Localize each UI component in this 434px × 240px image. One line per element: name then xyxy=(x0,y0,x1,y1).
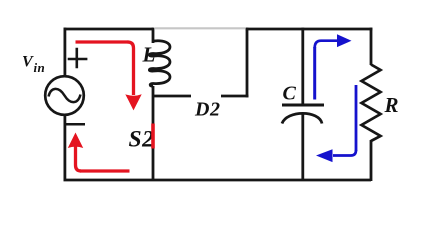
svg-text:D2: D2 xyxy=(194,99,221,121)
polarity plus sign xyxy=(68,48,88,68)
wire: left rail lower (Vin bottom lead) xyxy=(64,114,67,181)
wire: resistor top lead xyxy=(370,28,373,65)
blue current arrow: vertical up from capacitor xyxy=(313,47,316,100)
red current arrow: bottom horizontal segment xyxy=(80,169,130,172)
red current arrow: left vertical shaft with elbow xyxy=(76,147,82,172)
svg-text:C: C xyxy=(283,83,297,105)
svg-text:S2: S2 xyxy=(129,126,155,152)
wire: inductor top lead xyxy=(152,28,155,43)
red current arrowhead (up) xyxy=(68,133,83,149)
red current arrowhead (down) xyxy=(125,94,141,110)
wire: diode branch vertical riser xyxy=(246,28,249,98)
blue current arrowhead (right) xyxy=(337,34,352,47)
wire: left rail upper (Vin top lead) xyxy=(64,28,67,77)
capacitor C top plate xyxy=(282,104,324,107)
source Vin (AC) circle xyxy=(45,76,84,115)
wire: D2 left segment xyxy=(153,95,191,98)
blue current arrowhead (left) xyxy=(316,149,333,162)
wire: capacitor top lead xyxy=(301,28,304,105)
resistor R zigzag xyxy=(362,65,381,142)
blue current arrow: right vertical down segment xyxy=(355,85,358,151)
inductor L coil xyxy=(149,41,170,86)
wire: bottom rail xyxy=(64,179,372,182)
red current arrow: top horizontal segment xyxy=(76,40,129,43)
blue current arrow: bottom horizontal segment with elbow xyxy=(333,150,356,156)
wire: switch branch S2 (inductor bottom to bottom rail) xyxy=(152,86,155,181)
wire: top-left rail from Vin to inductor xyxy=(64,28,154,31)
red current arrow: right vertical shaft with elbow xyxy=(128,42,134,95)
svg-text:L: L xyxy=(142,43,156,67)
source Vin sine wave xyxy=(49,89,81,102)
svg-text:V: V xyxy=(22,53,34,70)
capacitor C curved bottom plate xyxy=(282,113,322,123)
wire: D2 right segment xyxy=(221,95,249,98)
wire: ghost top rail (gray, inactive) xyxy=(155,27,245,29)
wire: top-right rail xyxy=(246,28,373,31)
svg-text:in: in xyxy=(34,60,46,75)
wire: resistor bottom lead xyxy=(370,140,373,181)
svg-text:R: R xyxy=(384,93,399,117)
wire: capacitor bottom lead xyxy=(301,114,304,181)
red current highlight on S2 wire xyxy=(151,124,155,149)
polarity minus sign xyxy=(66,123,85,126)
blue current arrow: top horizontal segment with elbow xyxy=(315,41,338,48)
